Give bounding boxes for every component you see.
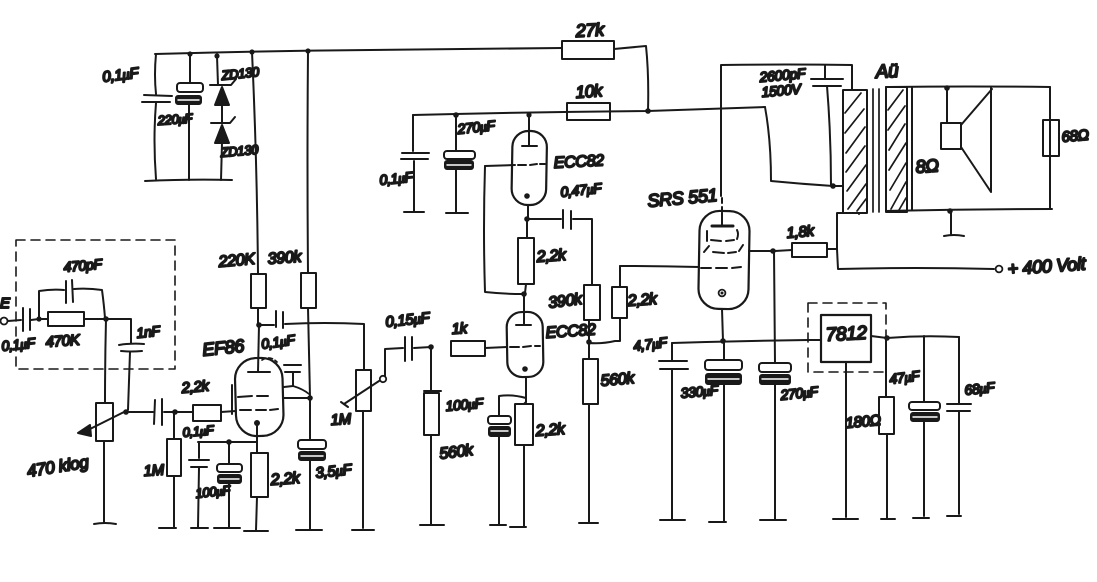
svg-text:4,7µF: 4,7µF: [632, 334, 669, 354]
triode ECC82 (first): [485, 112, 605, 217]
capacitor 3.5uF electrolytic: [296, 398, 353, 530]
capacitor 100uF / resistor 560k column: [420, 347, 485, 525]
resistor 2.2k EF86 cathode: [244, 442, 302, 531]
svg-text:0,1µF: 0,1µF: [379, 168, 416, 188]
capacitor 0.47uF: [529, 180, 604, 285]
EF86 anode bar: [248, 371, 270, 373]
wire: cathode rail to 7812: [672, 340, 821, 343]
SRS551 cathode: [719, 290, 726, 297]
resistor 180 ohm: [845, 338, 895, 519]
EF86 cathode dot: [254, 420, 260, 426]
svg-text:10k: 10k: [575, 81, 605, 102]
transformer Au secondary winding (hatched): [886, 87, 907, 212]
SRS551 grid dashes: [701, 267, 741, 268]
svg-text:390k: 390k: [547, 291, 584, 312]
svg-text:8Ω: 8Ω: [915, 155, 940, 177]
svg-text:2,2k: 2,2k: [535, 247, 567, 266]
svg-text:27k: 27k: [574, 19, 605, 41]
ECC82a cathode: [524, 193, 530, 199]
capacitor 100uF cathode electrolytic: [195, 442, 242, 528]
capacitor 0.1uF (ECC82 rail decoupling): [379, 115, 429, 212]
trimmer 1M: [330, 370, 386, 530]
svg-text:470K: 470K: [45, 332, 81, 351]
svg-text:560k: 560k: [600, 370, 636, 390]
svg-text:3,5µF: 3,5µF: [315, 461, 354, 482]
svg-text:EF86: EF86: [201, 336, 246, 360]
capacitor 2600pF 1500V: [758, 65, 843, 185]
resistor 1.8k: [775, 223, 837, 257]
capacitor 0.1uF (top-left film cap): [101, 54, 172, 179]
svg-text:470 klog: 470 klog: [26, 452, 91, 481]
svg-text:0,1µF: 0,1µF: [1, 334, 38, 354]
SRS551 plate dashes: [707, 230, 738, 241]
resistor 2.2k (SRS grid leak): [589, 266, 659, 343]
svg-text:1k: 1k: [451, 320, 469, 338]
resistor 2.2k (ECC82a cathode): [518, 221, 568, 293]
triode ECC82 (second): [506, 294, 596, 402]
regulator 7812: [821, 315, 871, 519]
wire: 10k anode rail: [413, 107, 765, 115]
svg-text:68µF: 68µF: [964, 379, 997, 398]
resistor 470K: [39, 312, 106, 351]
resistor 27k: [562, 19, 614, 59]
wire: SRS551 plate: [749, 250, 773, 252]
capacitor 220uF electrolytic: [156, 54, 203, 180]
wire: wiper to series cap: [129, 411, 153, 413]
dashed box around input network: [16, 240, 175, 369]
svg-text:390k: 390k: [267, 249, 303, 268]
resistor 390k: [547, 285, 600, 342]
wire: +400V line: [837, 249, 994, 269]
svg-text:560k: 560k: [438, 442, 475, 463]
speaker magnet: [941, 123, 961, 149]
speaker cone: [961, 88, 992, 192]
ECC82b grid dashes: [510, 346, 540, 347]
EF86 internal grid dashes: [238, 396, 268, 397]
capacitor 0.1uF series to EF86 grid: [154, 399, 175, 425]
svg-text:0,1µF: 0,1µF: [101, 65, 140, 86]
wire: SRS551 anode to top rail: [721, 65, 852, 197]
resistor 560k (right): [579, 342, 636, 523]
capacitor 0.1uF screen bypass: [260, 331, 309, 394]
capacitor 68uF: [947, 337, 997, 516]
svg-text:0,15µF: 0,15µF: [385, 309, 432, 331]
svg-text:100µF: 100µF: [445, 395, 485, 414]
zener diode ZD130 (lower): [211, 117, 260, 180]
svg-text:1M: 1M: [330, 411, 352, 429]
svg-text:220K: 220K: [217, 251, 257, 271]
svg-text:Aü: Aü: [874, 61, 899, 83]
svg-text:1,8k: 1,8k: [786, 223, 816, 242]
svg-text:+ 400 Volt: + 400 Volt: [1007, 254, 1087, 279]
ECC82b anode: [523, 294, 525, 325]
svg-text:1M: 1M: [143, 462, 165, 480]
svg-text:2,2k: 2,2k: [180, 378, 211, 398]
ECC82a anode: [526, 112, 531, 117]
svg-text:270µF: 270µF: [456, 117, 498, 137]
pentode EF86: [201, 325, 308, 442]
EF86 suppressor wire to anode node: [283, 397, 308, 399]
capacitor 270uF (plate node) electrolytic: [759, 251, 820, 520]
ECC82b cathode: [522, 366, 528, 372]
speaker box: [886, 85, 1052, 236]
svg-text:100µF: 100µF: [195, 482, 232, 501]
svg-text:0,47µF: 0,47µF: [560, 180, 604, 200]
capacitor 470pF: [39, 256, 105, 319]
capacitor 1nF: [106, 319, 162, 410]
capacitor 0.1uF cathode: [182, 422, 215, 528]
capacitor 4.7uF: [632, 334, 688, 520]
ECC82a grid: [485, 165, 515, 166]
resistor 2.2k EF86 grid stopper: [175, 378, 236, 421]
svg-text:2,2k: 2,2k: [534, 421, 566, 440]
wire: 10k rail corner to primary tap: [765, 107, 843, 186]
zener diode ZD130 (upper): [210, 56, 261, 123]
svg-text:2,2k: 2,2k: [626, 291, 658, 310]
svg-text:2,2k: 2,2k: [269, 470, 301, 489]
node dots on top rail: [187, 51, 192, 56]
svg-text:470pF: 470pF: [63, 256, 104, 275]
transformer Au primary winding (hatched): [843, 61, 900, 213]
wire: trimmer wiper to 0.15uF: [385, 348, 403, 376]
svg-text:0,1µF: 0,1µF: [182, 422, 215, 440]
transformer core lines: [873, 89, 879, 212]
wire: cathode rail EF86: [198, 441, 257, 443]
wire: 7812 output: [871, 336, 959, 338]
resistor 2.2k (ECC82b cathode): [510, 402, 567, 527]
capacitor 270uF electrolytic: [444, 112, 497, 213]
capacitor 0.1uF coupling (EF86 anode): [261, 311, 364, 370]
wire: to SRS551 grid: [620, 266, 699, 267]
resistor 220K: [217, 52, 266, 325]
capacitor 0.1uF input coupling: [1, 308, 39, 354]
resistor 68 ohm: [1043, 87, 1089, 208]
svg-text:ZD130: ZD130: [219, 142, 260, 160]
wire: input: [8, 320, 21, 321]
svg-text:47µF: 47µF: [888, 367, 921, 387]
regulator 7812 dashed box: [808, 303, 886, 372]
svg-text:1500V: 1500V: [761, 80, 803, 100]
EF86 grid side bar: [231, 385, 233, 414]
wire: top supply rail: [155, 48, 562, 54]
resistor 390k (anode load EF86): [267, 51, 316, 397]
svg-text:1nF: 1nF: [136, 322, 163, 341]
svg-text:0,1µF: 0,1µF: [260, 331, 297, 352]
svg-text:330µF: 330µF: [680, 382, 720, 401]
svg-text:7812: 7812: [825, 323, 868, 346]
SRS551 top cap: [721, 198, 723, 213]
svg-text:180Ω: 180Ω: [845, 412, 882, 432]
wire: bottom bar of top-left block: [145, 180, 232, 181]
wire: grid bypass down: [484, 166, 522, 294]
svg-text:68Ω: 68Ω: [1061, 127, 1090, 146]
resistor 10k: [567, 81, 610, 120]
wire: 1.8k node up to primary bottom: [837, 213, 859, 249]
capacitor 100uF (ECC82b cathode): [488, 395, 526, 525]
svg-text:ECC82: ECC82: [545, 322, 597, 342]
capacitor 330uF electrolytic: [680, 341, 742, 522]
svg-text:220µF: 220µF: [156, 111, 194, 129]
ground (speaker): [944, 235, 964, 236]
resistor 1k: [451, 320, 507, 356]
power tube SRS551: [647, 185, 750, 341]
svg-text:E: E: [0, 295, 11, 312]
resistor 1M grid leak: [143, 412, 181, 528]
node: EF86 anode junction: [256, 322, 262, 328]
capacitor 0.15uF: [385, 309, 432, 361]
capacitor 47uF electrolytic: [888, 336, 940, 518]
potentiometer 470k log: [26, 319, 124, 524]
svg-text:ZD130: ZD130: [220, 64, 261, 83]
svg-text:SRS 551: SRS 551: [647, 185, 718, 211]
svg-text:ECC82: ECC82: [553, 152, 604, 172]
svg-text:270µF: 270µF: [779, 383, 821, 403]
wire: 27k to 10k rail: [614, 46, 648, 111]
